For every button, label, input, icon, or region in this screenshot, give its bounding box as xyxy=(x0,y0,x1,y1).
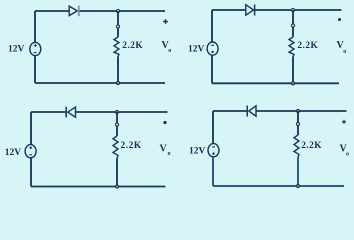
node dot: C1 bottom junction xyxy=(116,81,119,84)
svg-text:V: V xyxy=(160,143,168,154)
source V1 minus xyxy=(34,52,37,54)
node dot: C1 top junction xyxy=(116,9,119,12)
diode D2 triangle xyxy=(246,5,254,16)
resistor R2 zigzag xyxy=(289,37,294,57)
source V2 minus xyxy=(211,44,214,46)
marker: C2 dot xyxy=(338,18,341,21)
svg-text:o: o xyxy=(168,48,171,54)
svg-text:12V: 12V xyxy=(188,45,205,55)
wire: C3 top wire left segment xyxy=(31,111,66,113)
source V2 plus xyxy=(211,51,214,54)
source V4 plus xyxy=(212,152,215,155)
wire: C4 resistor branch upper xyxy=(297,111,299,135)
svg-text:2.2K: 2.2K xyxy=(301,141,322,151)
diode D1 triangle xyxy=(69,6,77,16)
diode D3 cathode bar xyxy=(65,107,67,118)
diode D4 triangle xyxy=(249,106,256,116)
svg-text:2.2K: 2.2K xyxy=(121,141,142,151)
svg-text:o: o xyxy=(343,49,346,55)
svg-text:2.2K: 2.2K xyxy=(122,41,143,51)
wire: C1 resistor branch lower xyxy=(117,57,119,84)
resistor R3 zigzag xyxy=(113,136,118,159)
node dot: C4 bottom junction xyxy=(296,184,299,187)
node dot: C2 top junction xyxy=(291,8,294,11)
wire: C1 top wire left segment xyxy=(35,10,69,12)
wire: C2 top wire right segment xyxy=(255,9,342,11)
svg-text:2.2K: 2.2K xyxy=(297,41,318,51)
marker: C3 dot xyxy=(163,121,166,124)
wire: C3 resistor branch lower xyxy=(116,159,118,187)
wire: C1 left vertical lower xyxy=(34,56,36,83)
pin dot: C4 resistor top pin xyxy=(296,122,299,125)
source V1 circle xyxy=(30,42,41,55)
wire: C3 left vertical upper xyxy=(30,112,32,145)
source V3 minus xyxy=(29,154,32,156)
wire: C4 bottom wire xyxy=(213,185,344,187)
pin dot: C3 resistor top pin xyxy=(115,123,118,126)
diode D3 triangle xyxy=(68,107,76,117)
wire: C1 bottom wire xyxy=(35,82,165,84)
wire: C2 left vertical lower xyxy=(211,55,213,83)
wire: C4 top wire left segment xyxy=(213,110,247,112)
svg-text:o: o xyxy=(346,152,349,158)
node dot: C3 bottom junction xyxy=(115,185,118,188)
marker: C4 plus sign xyxy=(342,120,346,124)
svg-text:12V: 12V xyxy=(8,45,25,55)
wire: C3 top wire right segment xyxy=(76,111,168,113)
wire: C2 bottom wire xyxy=(212,82,339,84)
source V1 plus xyxy=(34,44,37,47)
source V3 circle xyxy=(25,145,36,158)
svg-text:12V: 12V xyxy=(189,146,206,156)
wire: C4 left vertical upper xyxy=(212,111,214,144)
wire: C3 bottom wire xyxy=(31,186,166,188)
pin dot: C2 resistor top pin xyxy=(291,24,294,27)
svg-text:12V: 12V xyxy=(5,148,22,158)
source V3 plus xyxy=(29,146,32,149)
wire: C2 resistor branch lower xyxy=(292,57,294,84)
svg-text:o: o xyxy=(168,151,171,157)
marker: C1 plus sign xyxy=(163,19,168,24)
node dot: C2 bottom junction xyxy=(291,82,294,85)
resistor R1 zigzag xyxy=(114,37,119,57)
wire: C1 top wire right segment xyxy=(80,10,166,12)
wire: C4 resistor branch lower xyxy=(297,158,299,188)
wire: C1 resistor branch upper xyxy=(117,11,119,37)
pin dot: C1 resistor top pin xyxy=(116,25,119,28)
wire: C2 left vertical upper xyxy=(211,10,213,42)
source V4 circle xyxy=(208,144,219,157)
wire: C2 resistor branch upper xyxy=(292,10,294,37)
wire: C3 resistor branch upper xyxy=(116,112,118,136)
diode D1 cathode bar xyxy=(78,6,80,17)
wire: C4 top wire right segment xyxy=(256,110,347,112)
node dot: C4 top junction xyxy=(296,109,299,112)
diode D4 cathode bar xyxy=(246,106,248,117)
wire: C3 left vertical lower xyxy=(30,158,32,187)
wire: C2 top wire left segment xyxy=(212,9,246,11)
diode D2 cathode bar xyxy=(254,5,256,16)
resistor R4 zigzag xyxy=(294,135,299,158)
source V4 minus xyxy=(212,146,215,148)
wire: C1 left vertical upper xyxy=(34,11,36,43)
node dot: C3 top junction xyxy=(115,110,118,113)
wire: C4 left vertical lower xyxy=(212,157,214,186)
source V2 circle xyxy=(207,42,218,55)
